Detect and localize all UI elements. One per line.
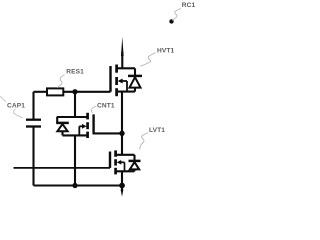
svg-text:RC1: RC1: [182, 2, 196, 9]
svg-text:LVT1: LVT1: [149, 127, 165, 134]
svg-text:CNT1: CNT1: [97, 103, 115, 110]
svg-text:RES1: RES1: [66, 69, 84, 76]
svg-text:HVT1: HVT1: [157, 48, 174, 55]
svg-text:CAP1: CAP1: [7, 102, 25, 109]
